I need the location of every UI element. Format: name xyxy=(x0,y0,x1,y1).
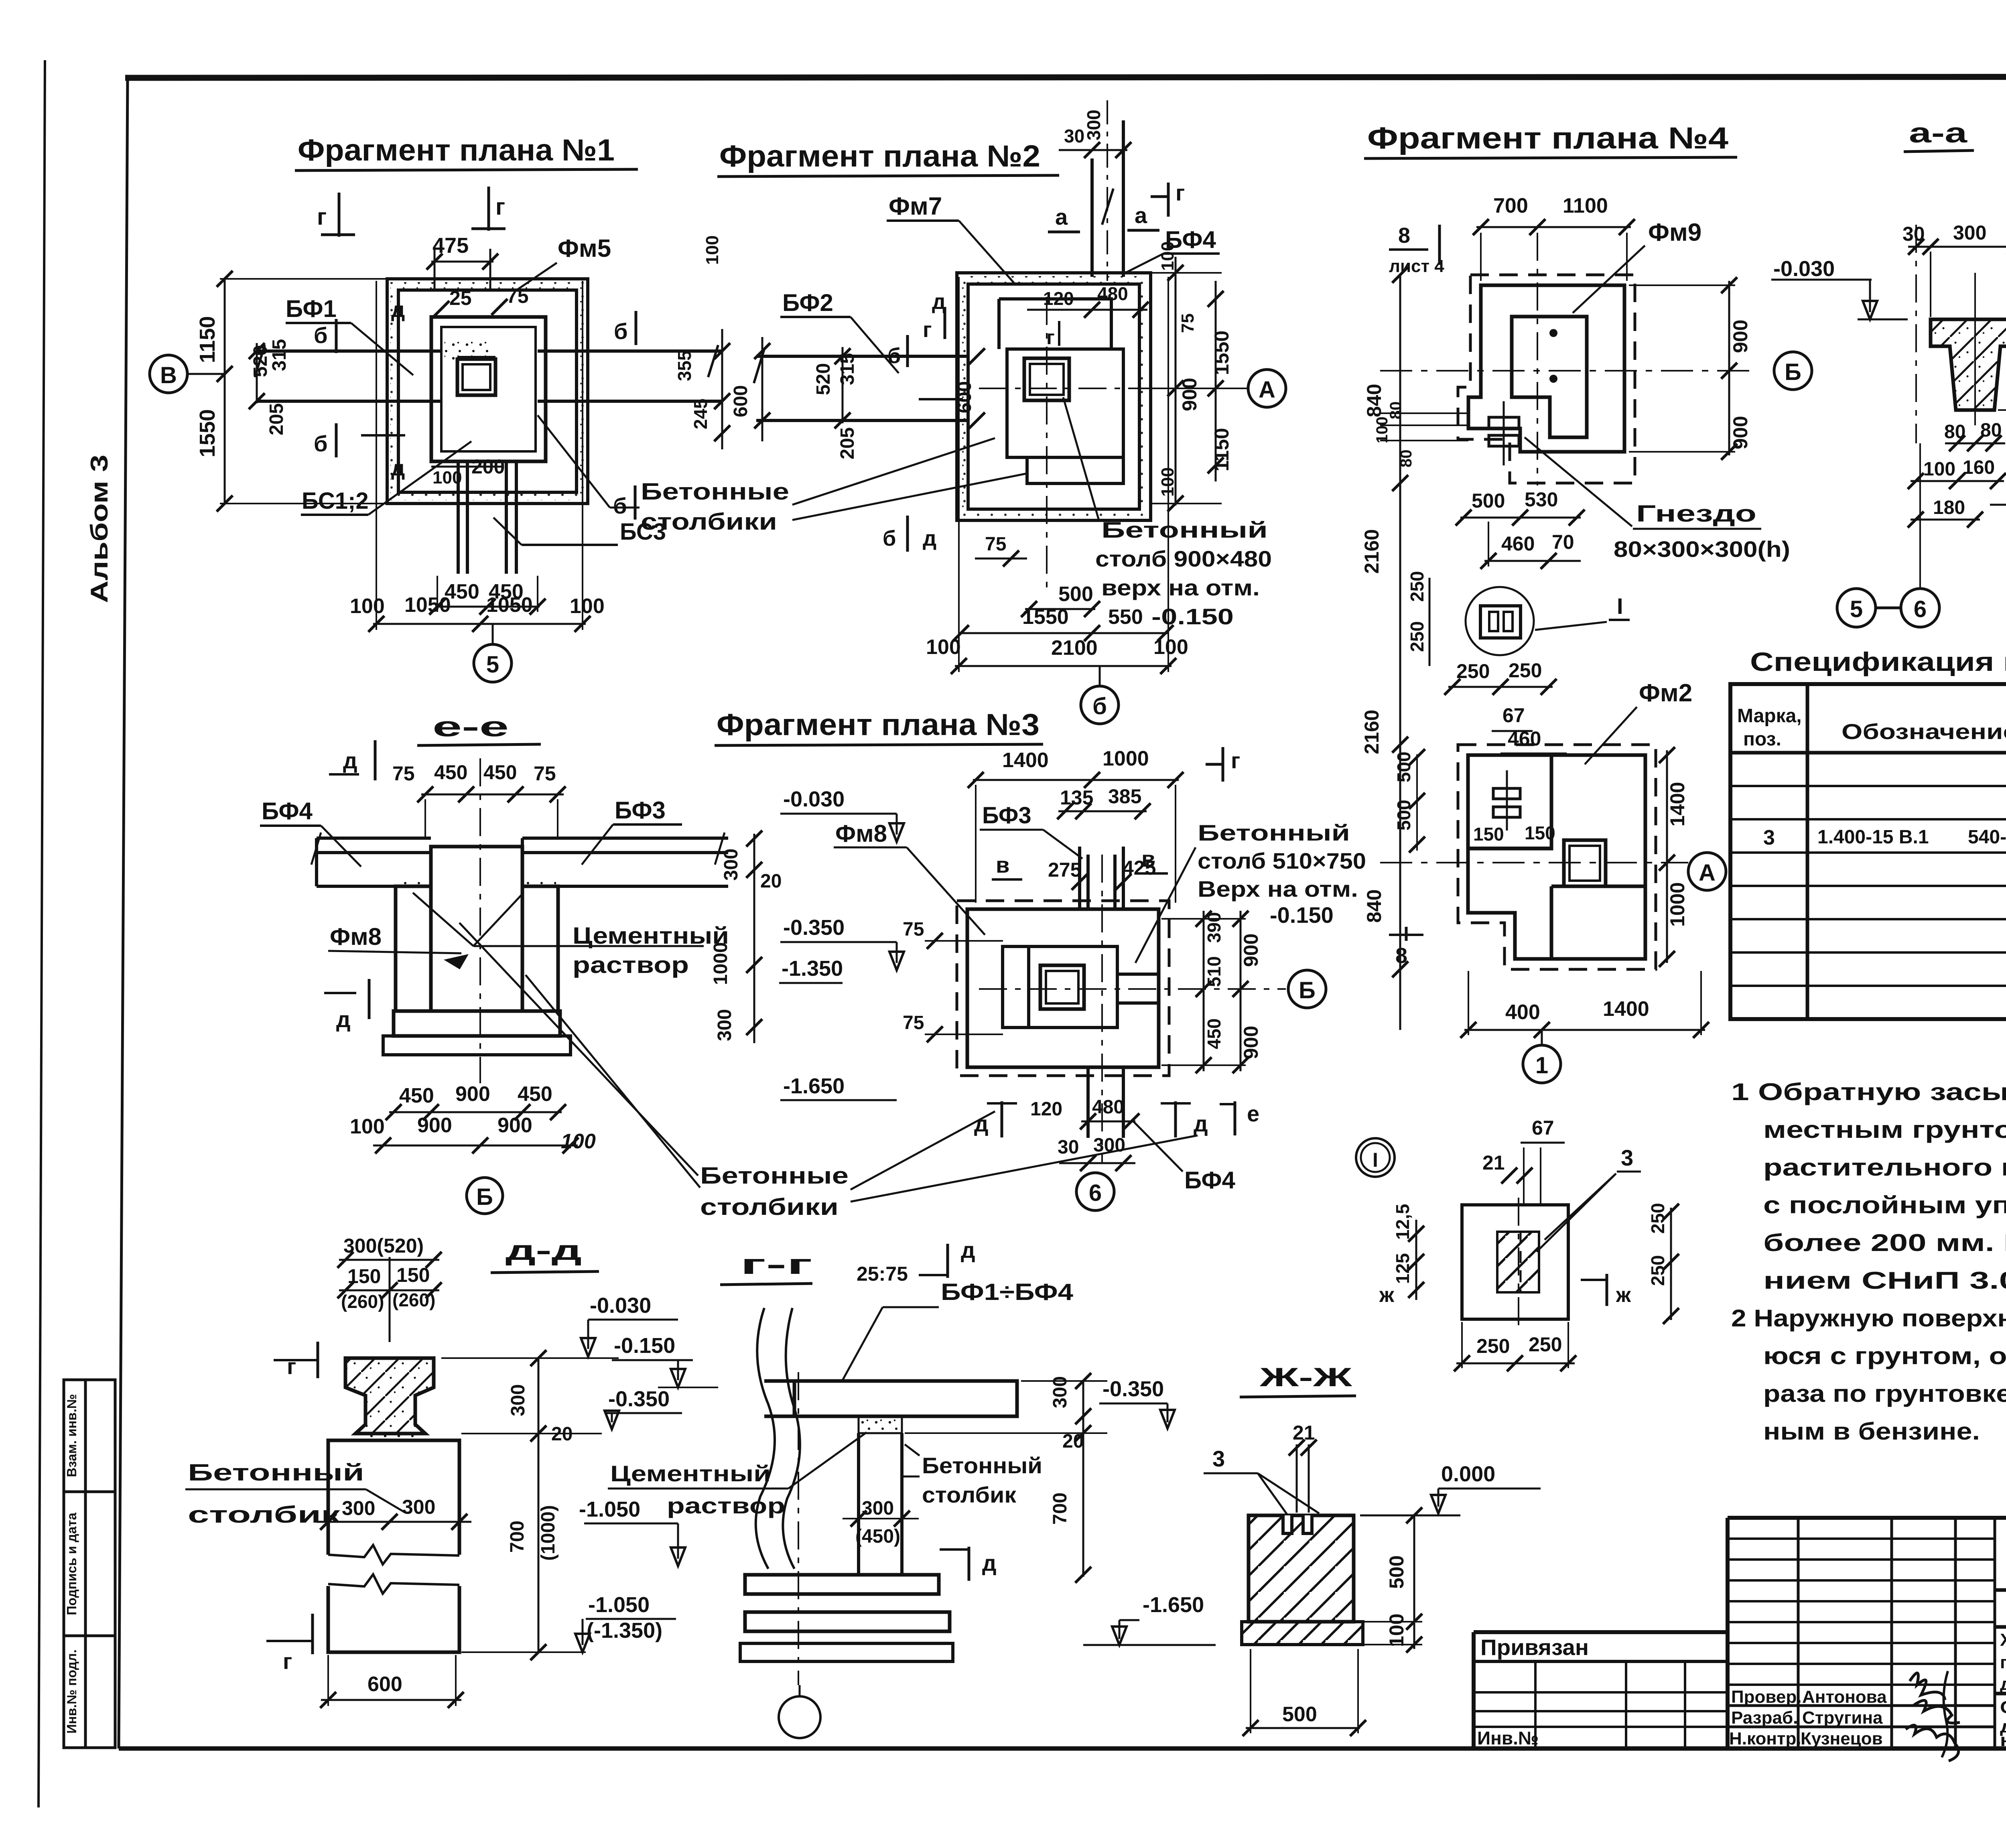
svg-text:250: 250 xyxy=(1529,1333,1562,1356)
svg-text:100: 100 xyxy=(703,236,722,265)
svg-text:540-05: 540-05 xyxy=(1968,827,2006,848)
svg-text:100: 100 xyxy=(1385,1614,1408,1647)
svg-text:Бетонный: Бетонный xyxy=(188,1460,364,1486)
svg-text:верх на отм.: верх на отм. xyxy=(1101,575,1260,600)
svg-text:1550: 1550 xyxy=(1022,605,1069,629)
section mark г (right top) xyxy=(471,187,506,231)
svg-text:75: 75 xyxy=(1178,313,1198,333)
svg-text:питьевых и сточных вод произво: питьевых и сточных вод произво- xyxy=(2000,1653,2006,1672)
central column xyxy=(1040,965,1084,1009)
svg-text:600: 600 xyxy=(367,1673,402,1696)
svg-text:г: г xyxy=(495,194,505,220)
svg-text:67: 67 xyxy=(1532,1117,1554,1139)
svg-text:-1.050: -1.050 xyxy=(588,1593,650,1617)
svg-text:450: 450 xyxy=(1204,1018,1224,1049)
svg-text:500: 500 xyxy=(1058,583,1093,606)
left stamp column xyxy=(64,1380,115,1748)
cement wedge xyxy=(859,1416,902,1433)
svg-text:столбик: столбик xyxy=(188,1502,341,1528)
svg-text:ным в бензине.: ным в бензине. xyxy=(1763,1418,1980,1445)
left slab xyxy=(317,838,431,886)
bolts dots xyxy=(1549,329,1557,337)
svg-text:900: 900 xyxy=(455,1082,490,1106)
svg-text:-0.030: -0.030 xyxy=(783,787,845,811)
svg-text:300: 300 xyxy=(862,1498,894,1519)
svg-text:1400: 1400 xyxy=(1666,782,1689,827)
svg-text:Инв.№: Инв.№ xyxy=(1477,1728,1539,1748)
stamp column texts xyxy=(64,1394,79,1734)
title underline xyxy=(1364,157,1737,158)
Фм2 sockets xyxy=(1493,788,1520,799)
outer borders xyxy=(1474,1518,2006,1748)
svg-text:Верх на отм.: Верх на отм. xyxy=(1198,876,1358,902)
svg-text:21: 21 xyxy=(1482,1151,1505,1174)
Фм9 plan outer dashed xyxy=(1458,275,1635,483)
frame border bottom xyxy=(119,1746,2006,1751)
svg-text:б: б xyxy=(613,493,627,518)
svg-text:Хлораторная для обеззараживани: Хлораторная для обеззараживания xyxy=(2000,1630,2006,1650)
axis circle Б xyxy=(467,1178,503,1214)
svg-text:450: 450 xyxy=(483,761,517,784)
svg-text:Цементный: Цементный xyxy=(610,1461,771,1486)
svg-text:Фрагмент плана №1: Фрагмент плана №1 xyxy=(298,133,615,167)
svg-text:2160: 2160 xyxy=(1360,710,1383,754)
svg-text:д: д xyxy=(1194,1111,1208,1136)
svg-text:г-г: г-г xyxy=(740,1249,812,1280)
svg-text:Стругина: Стругина xyxy=(1802,1708,1883,1728)
svg-text:475: 475 xyxy=(432,234,469,258)
svg-text:Н.контр.: Н.контр. xyxy=(1729,1729,1801,1748)
svg-text:75: 75 xyxy=(903,919,924,940)
svg-text:Разраб.: Разраб. xyxy=(1731,1708,1798,1728)
svg-text:355: 355 xyxy=(674,350,695,381)
svg-text:-0.350: -0.350 xyxy=(783,916,845,940)
svg-text:700: 700 xyxy=(1050,1493,1071,1525)
svg-text:Инв.№ подл.: Инв.№ подл. xyxy=(64,1649,79,1734)
svg-text:300: 300 xyxy=(1953,221,1986,244)
svg-text:Бетонные: Бетонные xyxy=(700,1163,849,1189)
svg-text:1150: 1150 xyxy=(1210,428,1233,471)
svg-text:150: 150 xyxy=(1473,824,1504,845)
svg-text:25:75: 25:75 xyxy=(857,1263,908,1285)
left long chain xyxy=(1399,275,1401,1030)
axis circle А xyxy=(1248,370,1286,407)
left dim chain 1150/1550 xyxy=(224,279,226,504)
foundation steps xyxy=(745,1575,939,1594)
svg-text:поз.: поз. xyxy=(1743,729,1781,750)
svg-text:100: 100 xyxy=(350,1115,385,1138)
svg-text:I: I xyxy=(1373,1149,1378,1171)
axis circle В xyxy=(150,355,187,393)
svg-text:8: 8 xyxy=(1398,223,1410,248)
svg-text:г: г xyxy=(923,318,932,342)
svg-text:д: д xyxy=(974,1111,989,1136)
svg-text:460: 460 xyxy=(1501,532,1535,555)
svg-text:Фм2: Фм2 xyxy=(1639,679,1692,707)
title underline xyxy=(717,175,1059,177)
svg-text:Фм5: Фм5 xyxy=(558,235,611,262)
svg-text:80×300×300(h): 80×300×300(h) xyxy=(1614,536,1790,562)
svg-text:2100: 2100 xyxy=(1051,636,1098,660)
svg-text:400: 400 xyxy=(1505,1001,1540,1024)
svg-text:530: 530 xyxy=(1525,488,1558,511)
svg-text:д: д xyxy=(343,748,357,773)
svg-text:900: 900 xyxy=(497,1114,532,1137)
svg-text:3: 3 xyxy=(1763,826,1775,849)
svg-text:д: д xyxy=(391,298,405,322)
svg-text:8: 8 xyxy=(1395,944,1407,968)
signatures xyxy=(1906,1673,1960,1761)
top wall strip xyxy=(1080,847,1123,909)
svg-text:500: 500 xyxy=(1472,489,1505,512)
svg-text:-0.030: -0.030 xyxy=(1773,257,1835,281)
plan inner solid xyxy=(967,909,1159,1067)
svg-text:520: 520 xyxy=(813,363,834,395)
axis circle 1 xyxy=(1523,1045,1561,1083)
svg-text:205: 205 xyxy=(266,403,287,435)
svg-text:600: 600 xyxy=(730,385,751,417)
svg-text:300: 300 xyxy=(714,1009,735,1041)
long leader lines to frag3 xyxy=(459,923,698,1176)
svg-text:250: 250 xyxy=(1407,621,1427,652)
center axis xyxy=(479,758,481,1083)
svg-text:д: д xyxy=(961,1237,975,1263)
axis circle б (bottom) xyxy=(1081,686,1119,724)
svg-text:30: 30 xyxy=(1064,126,1084,146)
svg-text:лист 4: лист 4 xyxy=(1389,256,1444,276)
svg-text:70: 70 xyxy=(1552,531,1574,553)
svg-text:100: 100 xyxy=(350,595,385,618)
svg-text:г: г xyxy=(1046,326,1055,349)
svg-text:д: д xyxy=(923,526,936,550)
svg-text:67: 67 xyxy=(1502,704,1525,727)
inner wall block xyxy=(1003,946,1117,1028)
svg-text:900: 900 xyxy=(1729,416,1752,449)
svg-text:столбики: столбики xyxy=(641,509,777,535)
svg-text:1150: 1150 xyxy=(195,316,219,363)
title underline xyxy=(295,169,638,171)
axis dash line xyxy=(1915,225,1917,443)
svg-text:Ж-Ж: Ж-Ж xyxy=(1259,1362,1352,1392)
svg-text:б: б xyxy=(887,344,901,368)
svg-text:840: 840 xyxy=(1363,384,1385,417)
svg-text:300: 300 xyxy=(342,1497,375,1519)
inner hatched strip xyxy=(1497,1232,1539,1292)
svg-text:1050: 1050 xyxy=(486,593,533,617)
svg-text:300(520): 300(520) xyxy=(343,1235,424,1257)
svg-text:БФ4: БФ4 xyxy=(262,798,313,824)
svg-text:100: 100 xyxy=(1153,636,1188,659)
svg-text:Фрагмент плана №2: Фрагмент плана №2 xyxy=(719,139,1040,173)
axis circle 5 xyxy=(474,644,512,682)
axis circle Б xyxy=(1288,970,1326,1008)
svg-text:Марка,: Марка, xyxy=(1737,705,1802,727)
svg-text:300: 300 xyxy=(402,1496,435,1518)
left outer trim line xyxy=(39,60,45,1807)
svg-text:275: 275 xyxy=(1048,859,1081,881)
svg-text:Б: Б xyxy=(1785,359,1801,385)
svg-text:500: 500 xyxy=(1393,751,1414,782)
svg-text:БФ3: БФ3 xyxy=(615,797,666,824)
svg-text:250: 250 xyxy=(1407,571,1427,602)
central column xyxy=(1024,358,1069,400)
svg-text:5: 5 xyxy=(486,652,499,678)
svg-text:-0.150: -0.150 xyxy=(1270,902,1334,928)
svg-text:520: 520 xyxy=(250,345,271,377)
svg-text:100: 100 xyxy=(570,595,605,618)
svg-text:б: б xyxy=(883,526,896,550)
column body upper xyxy=(328,1440,459,1555)
svg-text:юся с грунтом, обмазать горячи: юся с грунтом, обмазать горячим битумом … xyxy=(1763,1342,2006,1369)
top slab xyxy=(794,1381,1017,1416)
axis circles 5 6 xyxy=(1837,589,1876,627)
svg-text:г: г xyxy=(1176,180,1185,205)
svg-text:д: д xyxy=(391,456,405,480)
svg-text:е-е: е-е xyxy=(432,711,509,742)
svg-text:Фм8: Фм8 xyxy=(835,820,887,847)
svg-text:нов . Сечения: нов . Сечения xyxy=(2000,1730,2006,1750)
table grid xyxy=(1730,684,2006,1019)
svg-text:д-д: д-д xyxy=(506,1235,582,1266)
Фм2 plan outer dashed xyxy=(1458,745,1656,969)
bottom vertical beam xyxy=(458,461,516,574)
svg-text:-0.150: -0.150 xyxy=(1151,604,1234,629)
svg-text:БФ3: БФ3 xyxy=(982,802,1031,829)
svg-text:1.400-15 В.1: 1.400-15 В.1 xyxy=(1817,827,1929,848)
right big cells xyxy=(1995,1588,2006,1592)
frame border top (thick) xyxy=(125,77,2006,78)
svg-text:500: 500 xyxy=(1393,800,1414,831)
notches xyxy=(1283,1515,1312,1533)
svg-text:Фм9: Фм9 xyxy=(1648,219,1701,246)
svg-text:Бетонный: Бетонный xyxy=(1198,820,1350,845)
svg-text:100: 100 xyxy=(1923,459,1955,480)
right slab xyxy=(522,838,728,886)
svg-text:а-а: а-а xyxy=(1909,117,1968,148)
svg-text:Антонова: Антонова xyxy=(1802,1687,1887,1707)
central pillar xyxy=(431,847,522,1011)
svg-text:450: 450 xyxy=(399,1084,434,1107)
svg-text:180: 180 xyxy=(1933,497,1965,518)
svg-text:-1.050: -1.050 xyxy=(579,1497,640,1521)
svg-text:1000: 1000 xyxy=(1666,882,1689,927)
г mark top right xyxy=(1206,747,1223,782)
svg-text:I: I xyxy=(1617,593,1623,619)
svg-text:Фм8: Фм8 xyxy=(330,923,382,950)
axes dash xyxy=(979,988,1286,990)
svg-text:150: 150 xyxy=(396,1264,430,1286)
svg-text:б: б xyxy=(314,323,328,348)
cement fill strip in core xyxy=(445,341,493,363)
svg-text:1: 1 xyxy=(1535,1052,1548,1078)
svg-text:а: а xyxy=(1135,203,1147,228)
svg-text:местным грунтом без включения: местным грунтом без включения почвенно- xyxy=(1763,1116,2006,1143)
beam through (left) xyxy=(257,351,722,401)
svg-text:б: б xyxy=(614,319,628,344)
axis circle А (frag4) xyxy=(1688,853,1726,890)
svg-text:Фрагмент плана №4: Фрагмент плана №4 xyxy=(1367,121,1728,155)
svg-text:(1000): (1000) xyxy=(538,1505,559,1561)
svg-text:500: 500 xyxy=(1282,1703,1317,1726)
svg-text:Фм7: Фм7 xyxy=(889,193,942,220)
beam entering left xyxy=(756,356,968,420)
svg-text:3: 3 xyxy=(1621,1145,1633,1170)
svg-text:Провер.: Провер. xyxy=(1731,1687,1801,1707)
svg-text:д: д xyxy=(982,1550,997,1576)
hatched block xyxy=(1249,1515,1354,1622)
inner foundation walls xyxy=(431,317,546,461)
svg-text:25: 25 xyxy=(449,287,472,309)
svg-text:300: 300 xyxy=(721,849,742,881)
Фм2 inner solid xyxy=(1468,755,1645,959)
svg-text:300: 300 xyxy=(1083,110,1104,140)
svg-text:315: 315 xyxy=(269,339,290,371)
top wall strip xyxy=(1092,120,1123,277)
svg-text:-0.350: -0.350 xyxy=(1102,1377,1164,1401)
svg-text:а: а xyxy=(1055,204,1068,229)
svg-text:Кузнецов: Кузнецов xyxy=(1801,1729,1883,1748)
socket rects xyxy=(1489,417,1519,428)
svg-text:дительностью 50 кг хлора в час: дительностью 50 кг хлора в час. xyxy=(2000,1674,2006,1694)
axis circle 6 xyxy=(1076,1173,1114,1210)
bottom slab xyxy=(1242,1622,1363,1645)
svg-text:столб 900×480: столб 900×480 xyxy=(1095,546,1272,571)
plan outer concrete band xyxy=(957,273,1151,520)
plan outer dashed xyxy=(957,901,1169,1076)
svg-text:100: 100 xyxy=(1373,416,1391,443)
svg-text:нием СНиП 3.02.01-87.: нием СНиП 3.02.01-87. xyxy=(1763,1267,2006,1294)
svg-text:0.000: 0.000 xyxy=(1441,1462,1495,1486)
svg-text:с послойным уплотнением слоями: с послойным уплотнением слоями не xyxy=(1763,1192,2006,1218)
detail circle with sockets xyxy=(1466,587,1534,655)
svg-text:100: 100 xyxy=(926,636,961,659)
svg-text:столбик: столбик xyxy=(922,1482,1017,1507)
break symbol xyxy=(328,1545,459,1564)
svg-text:75: 75 xyxy=(534,762,556,785)
svg-text:БФ1÷БФ4: БФ1÷БФ4 xyxy=(941,1279,1073,1305)
svg-text:460: 460 xyxy=(1508,727,1541,750)
svg-text:ж: ж xyxy=(1379,1283,1395,1307)
svg-text:450: 450 xyxy=(518,1082,552,1106)
svg-text:1550: 1550 xyxy=(1210,331,1233,375)
svg-text:Альбом 3: Альбом 3 xyxy=(86,455,113,603)
svg-text:Б: Б xyxy=(1299,977,1316,1003)
central column square xyxy=(457,359,495,395)
svg-text:6: 6 xyxy=(1914,596,1927,622)
wavy wall left xyxy=(756,1308,775,1569)
svg-text:б: б xyxy=(314,431,328,456)
svg-text:1400: 1400 xyxy=(1002,749,1049,772)
svg-text:1000: 1000 xyxy=(1102,747,1149,770)
svg-text:растительного грунта и строите: растительного грунта и строительного мус… xyxy=(1763,1154,2006,1181)
svg-text:600: 600 xyxy=(954,381,975,413)
svg-text:А: А xyxy=(1259,377,1275,403)
svg-text:1100: 1100 xyxy=(1563,194,1608,217)
svg-text:1050: 1050 xyxy=(404,593,451,617)
svg-text:1000: 1000 xyxy=(710,942,731,985)
svg-text:150: 150 xyxy=(1525,822,1555,843)
svg-text:550: 550 xyxy=(1108,605,1143,629)
svg-text:раза по грунтовке холодным бит: раза по грунтовке холодным битумом, разв… xyxy=(1763,1380,2006,1407)
svg-text:(260): (260) xyxy=(341,1291,384,1312)
stem center line xyxy=(1974,273,1976,425)
svg-text:ж: ж xyxy=(1616,1283,1631,1307)
svg-text:900: 900 xyxy=(1240,934,1262,967)
Бетонные столбики label (frag 1-2) xyxy=(538,415,1027,535)
svg-text:480: 480 xyxy=(1092,1097,1124,1118)
svg-text:75: 75 xyxy=(392,762,415,785)
svg-text:Б: Б xyxy=(476,1184,493,1210)
svg-text:Цементный: Цементный xyxy=(573,923,729,949)
svg-text:А: А xyxy=(1699,860,1716,886)
svg-text:75: 75 xyxy=(903,1012,924,1034)
svg-text:2160: 2160 xyxy=(1360,529,1383,574)
svg-text:250: 250 xyxy=(1509,659,1542,682)
inner walls xyxy=(999,299,1111,349)
svg-text:БС1;2: БС1;2 xyxy=(302,488,369,514)
svg-text:столб 510×750: столб 510×750 xyxy=(1198,848,1366,873)
center dash axes xyxy=(979,388,1143,389)
svg-text:20: 20 xyxy=(760,871,782,892)
svg-text:-1.350: -1.350 xyxy=(782,956,843,981)
svg-text:-1.650: -1.650 xyxy=(1143,1593,1204,1617)
svg-text:1 Обратную засыпку котлована п: 1 Обратную засыпку котлована производить xyxy=(1731,1078,2006,1105)
svg-text:75: 75 xyxy=(506,285,529,307)
svg-text:более 200 мм. В соответствии: более 200 мм. В соответствии с требова- xyxy=(1763,1229,2006,1256)
svg-text:120: 120 xyxy=(1043,288,1074,309)
svg-text:205: 205 xyxy=(837,427,858,459)
svg-text:120: 120 xyxy=(1030,1099,1062,1120)
svg-text:(260): (260) xyxy=(392,1290,435,1310)
svg-text:160: 160 xyxy=(1963,457,1995,478)
svg-text:-1.650: -1.650 xyxy=(783,1074,845,1098)
svg-text:Привязан: Привязан xyxy=(1480,1635,1589,1660)
bottom slab xyxy=(394,1011,560,1036)
svg-text:в: в xyxy=(996,852,1009,877)
cement seam xyxy=(363,1434,417,1441)
svg-text:12,5: 12,5 xyxy=(1392,1204,1413,1240)
beam break marks xyxy=(255,345,718,377)
trapezoid block (concrete) xyxy=(1931,319,2006,410)
svg-text:г: г xyxy=(1231,748,1240,773)
svg-text:(-1.350): (-1.350) xyxy=(587,1619,662,1643)
axis line down to circle xyxy=(1919,443,1921,589)
svg-text:450: 450 xyxy=(434,761,467,784)
svg-text:30: 30 xyxy=(1058,1137,1079,1158)
center line xyxy=(389,1257,391,1342)
svg-text:БФ1: БФ1 xyxy=(286,295,337,322)
svg-text:250: 250 xyxy=(1647,1255,1668,1286)
svg-text:е: е xyxy=(1247,1101,1259,1126)
svg-text:БФ4: БФ4 xyxy=(1184,1167,1236,1194)
svg-text:480: 480 xyxy=(1097,283,1128,304)
svg-text:900: 900 xyxy=(1729,320,1752,353)
svg-text:Обозначение: Обозначение xyxy=(1842,720,2006,744)
svg-text:г: г xyxy=(287,1354,296,1379)
svg-text:245: 245 xyxy=(690,398,711,429)
cement seams xyxy=(397,879,431,886)
svg-text:-0.150: -0.150 xyxy=(614,1334,675,1358)
svg-text:Подпись и дата: Подпись и дата xyxy=(64,1513,79,1615)
svg-text:250: 250 xyxy=(1456,660,1490,682)
wall below xyxy=(857,1433,860,1575)
trapezoid block xyxy=(345,1358,434,1434)
svg-text:Бетонный: Бетонный xyxy=(1101,517,1268,542)
svg-text:900: 900 xyxy=(417,1114,452,1137)
svg-text:510: 510 xyxy=(1204,956,1224,987)
svg-text:3: 3 xyxy=(1212,1446,1225,1471)
svg-text:250: 250 xyxy=(1476,1335,1510,1357)
